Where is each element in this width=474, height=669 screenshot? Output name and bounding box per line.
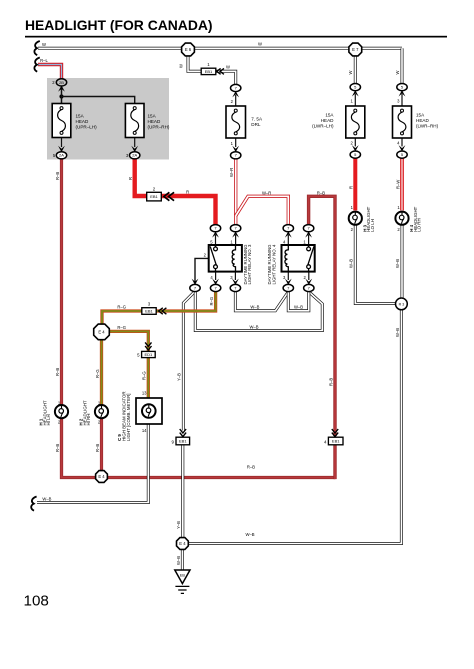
- svg-text:(LWR–RH): (LWR–RH): [416, 123, 439, 128]
- svg-text:DRL: DRL: [251, 122, 261, 127]
- connector 5 below LWR-LH fuse: [350, 151, 360, 158]
- connector 5 below LWR-RH fuse: [397, 151, 407, 158]
- svg-text:W–B: W–B: [395, 328, 400, 337]
- stub LWR-LH fuse bottom: [354, 138, 356, 146]
- svg-text:(LWR–LH): (LWR–LH): [312, 123, 334, 128]
- junction connector EB1 (top, W wire): [201, 62, 216, 74]
- svg-text:EB1: EB1: [150, 194, 158, 199]
- connector relay3 pin1 top: [230, 225, 240, 232]
- fuse 7.5A DRL: [226, 106, 263, 138]
- wire W-B from R3 splice down to E4 ground point: [189, 309, 402, 543]
- splice R3: [396, 298, 408, 310]
- svg-text:7. 5A: 7. 5A: [251, 117, 263, 122]
- svg-text:HEADLIGHT (FOR CANADA): HEADLIGHT (FOR CANADA): [25, 17, 213, 33]
- svg-text:W–B: W–B: [395, 259, 400, 268]
- svg-text:(UPR–RH): (UPR–RH): [148, 124, 170, 129]
- connector 2A below UPR-RH fuse: [130, 152, 140, 159]
- svg-text:W: W: [395, 71, 400, 75]
- connector relay3 pin4 bottom: [210, 284, 220, 291]
- wire link 2B connector into block: [61, 85, 63, 90]
- stub DRL fuse top: [235, 95, 237, 106]
- stub LWR-LH fuse top: [354, 94, 356, 106]
- svg-text:EB1: EB1: [332, 439, 340, 444]
- svg-text:108: 108: [24, 593, 49, 610]
- svg-text:HEAD: HEAD: [76, 119, 89, 124]
- svg-text:15A: 15A: [325, 113, 334, 118]
- junction connector EB1 (Y-B ground): [172, 437, 190, 445]
- stub relay3 pin4 bottom: [215, 272, 217, 280]
- svg-text:R–B: R–B: [317, 190, 325, 195]
- wire W-B relay3 pin2 branch to EB1 and E4 ground: [183, 291, 195, 537]
- svg-text:E 6: E 6: [185, 47, 192, 52]
- svg-text:HI LH: HI LH: [46, 414, 51, 425]
- stub LWR-RH fuse bottom: [401, 138, 403, 146]
- continuation curl R-L feed: [34, 58, 39, 72]
- bulb H3 HEADLIGHT LO LH: [349, 212, 362, 225]
- svg-text:W–R: W–R: [262, 190, 271, 195]
- connector chevron on R wire: [164, 192, 174, 200]
- wire W-B relay3 coil ground to relay4: [235, 291, 288, 311]
- svg-text:LIGHT [COMB. METER]: LIGHT [COMB. METER]: [126, 394, 131, 442]
- wire R-B from relay4 contact to junction EB1: [309, 196, 335, 436]
- svg-text:W–B: W–B: [245, 532, 254, 537]
- terminal arrow below connector 7 DRL: [232, 91, 239, 97]
- terminal arrow above connector 7 DRL: [232, 146, 239, 152]
- connector 7 above DRL fuse: [231, 84, 241, 91]
- terminal arrow below connector 5 LWR-LH: [352, 90, 359, 96]
- indicator C9 HIGH BEAM INDICATOR LIGHT box: [136, 398, 162, 424]
- connector relay4 pin3 bottom: [283, 284, 293, 291]
- bulb C9 high beam indicator: [142, 404, 156, 418]
- connector 2B on fuse block: [56, 79, 66, 86]
- svg-text:R–B: R–B: [328, 378, 333, 386]
- wire W from E6 via EB1 to 7.5A DRL fuse: [188, 51, 236, 85]
- junction connector EB1 (R wire): [147, 186, 162, 201]
- wire W main horizontal feed: [38, 47, 402, 50]
- terminal arrow above 2A UPR-RH: [131, 146, 138, 152]
- stub relay4 pin2 bottom: [308, 272, 310, 280]
- terminal arrow relay4 pin4: [285, 231, 292, 237]
- junction connector ED1 (R-G to meter): [137, 351, 155, 357]
- wire R-B from H2 down to E4: [100, 418, 103, 471]
- fuse 15A HEAD (UPR-RH): [125, 104, 170, 138]
- connector E4 lower-left: [96, 471, 108, 483]
- relay DAYTIME RUNNING LIGHT RELAY NO. 4: [282, 245, 315, 272]
- svg-text:R–G: R–G: [142, 371, 147, 380]
- svg-text:2A: 2A: [132, 153, 137, 158]
- terminal arrow relay4 pin1: [305, 231, 312, 237]
- wire R-G from relay3 output to E4: [102, 291, 216, 325]
- connector chevron above EB1 ground left: [180, 429, 186, 437]
- svg-text:R–G: R–G: [117, 305, 126, 310]
- svg-text:W: W: [179, 64, 184, 68]
- relay DAYTIME RUNNING LIGHT RELAY NO. 3: [209, 245, 242, 272]
- wire W-B from E4 to ground EB: [181, 550, 184, 571]
- wire R from LWR-LH fuse to H3: [353, 158, 357, 210]
- wire W-B from H4 to R3 splice: [401, 225, 404, 299]
- connector relay3 pin2 bottom: [190, 284, 200, 291]
- wire R-B from UPR-LH fuse to H1 headlight: [60, 158, 63, 405]
- stub relay3 pin3 bottom: [234, 272, 236, 280]
- stub LWR-RH fuse top: [401, 94, 403, 106]
- svg-text:E 4: E 4: [179, 541, 186, 546]
- svg-text:W: W: [226, 65, 230, 70]
- svg-text:R: R: [128, 177, 133, 180]
- svg-text:EB: EB: [180, 573, 186, 577]
- svg-text:R–G: R–G: [209, 297, 214, 306]
- svg-text:R–G: R–G: [117, 325, 126, 330]
- stub relay3 pin5 top: [215, 235, 217, 245]
- svg-text:R–B: R–B: [95, 444, 100, 452]
- svg-text:W–B: W–B: [176, 556, 181, 565]
- svg-text:R–W: R–W: [395, 180, 400, 189]
- svg-text:Y–B: Y–B: [176, 521, 181, 529]
- terminal arrow relay3 pin1: [232, 231, 239, 237]
- wire W-B from H3 to R3 splice: [355, 225, 396, 304]
- svg-text:E 7: E 7: [352, 47, 359, 52]
- stub DRL fuse bottom: [235, 138, 237, 147]
- wire R-G from E4 down to H2 headlight: [100, 338, 103, 405]
- terminal arrow relay3 pin2 bottom: [192, 279, 199, 285]
- terminal arrow above connector 5 LWR-RH: [399, 145, 406, 151]
- bulb H2 HEADLIGHT HI RH: [95, 405, 108, 418]
- terminal arrow below connector 5 LWR-RH: [399, 90, 406, 96]
- svg-text:EB1: EB1: [145, 309, 153, 314]
- svg-text:E 4: E 4: [98, 474, 105, 479]
- wire W-B long ground run relay3 to relay4: [195, 291, 322, 330]
- svg-text:EB1: EB1: [179, 439, 187, 444]
- svg-text:HI RH: HI RH: [86, 414, 91, 426]
- terminal arrow above 2A UPR-LH: [58, 146, 65, 152]
- svg-text:Y–B: Y–B: [177, 373, 182, 381]
- wire W-B relay4 pins ground link: [288, 291, 309, 311]
- svg-text:LIGHT RELAY NO. 4: LIGHT RELAY NO. 4: [272, 244, 277, 284]
- svg-text:15A: 15A: [148, 114, 157, 119]
- stub relay4 pin4 top: [287, 235, 289, 245]
- svg-text:R 3: R 3: [399, 303, 405, 307]
- stub relay4 pin3 bottom: [287, 272, 289, 280]
- connector E4 bottom: [177, 538, 189, 550]
- title underline: [25, 36, 447, 38]
- svg-text:LO LH: LO LH: [370, 219, 375, 232]
- fuse 15A HEAD (UPR-LH): [52, 104, 97, 138]
- fuse 15A HEAD (LWR-LH): [312, 106, 365, 138]
- wire R-B from H1 down to bottom rail across to EB1: [62, 418, 336, 478]
- wire fuse block internal link to UPR-LH fuse: [61, 89, 63, 104]
- terminal arrow relay4 pin3 bottom: [285, 279, 292, 285]
- wire fuse block internal link to UPR-RH fuse: [62, 97, 135, 104]
- junction connector EB1 (R-B ground): [324, 437, 343, 445]
- svg-text:HEAD: HEAD: [148, 119, 161, 124]
- svg-text:R–B: R–B: [55, 368, 60, 376]
- connector 7 below DRL fuse: [231, 152, 241, 159]
- connector relay4 pin1 top: [303, 225, 313, 232]
- connector E6: [182, 43, 195, 56]
- svg-text:2B: 2B: [59, 80, 64, 85]
- svg-text:15A: 15A: [76, 114, 85, 119]
- wire W drop from E7 to 15A HEAD LWR-LH fuse: [354, 50, 357, 84]
- connector E7: [349, 43, 362, 56]
- bulb H4 HEADLIGHT LO RH: [395, 212, 408, 225]
- wire R from UPR-RH fuse to relay3 contact: [135, 158, 216, 225]
- wire R-L feed to upper fuses: [38, 65, 62, 80]
- svg-text:R–B: R–B: [55, 444, 60, 452]
- svg-text:ED1: ED1: [145, 352, 154, 357]
- connector relay4 pin4 top: [283, 225, 293, 232]
- connector relay4 pin2 bottom: [304, 284, 314, 291]
- svg-text:W–B: W–B: [349, 259, 354, 268]
- continuation curl W-B bottom: [31, 497, 36, 511]
- svg-text:HEAD: HEAD: [321, 118, 334, 123]
- wire R-B from junction EB1 down to bottom rail: [333, 445, 336, 479]
- connector 5 above LWR-LH fuse: [350, 84, 360, 91]
- bulb H1 HEADLIGHT HI LH: [55, 405, 68, 418]
- svg-text:R–B: R–B: [55, 172, 60, 180]
- terminal arrow relay3 pin3 bottom: [232, 279, 239, 285]
- wire W-B from C9 combination meter to body harness: [37, 424, 148, 503]
- stub relay3 pin1 top: [235, 235, 237, 245]
- svg-text:LIGHT RELAY NO. 3: LIGHT RELAY NO. 3: [247, 244, 252, 284]
- svg-text:13: 13: [142, 391, 147, 396]
- wire R-W from LWR-RH fuse to H4: [400, 158, 404, 210]
- fuse 15A HEAD (LWR-RH): [393, 106, 439, 138]
- svg-text:W–R: W–R: [229, 168, 234, 177]
- wire W drop to 15A HEAD LWR-RH fuse: [401, 48, 404, 84]
- terminal arrow below 2B: [58, 85, 65, 91]
- connector chevron above EB1 ground right: [332, 429, 338, 437]
- wire relay3 pin2 to connector: [195, 258, 209, 282]
- connector relay3 pin3 bottom: [230, 284, 240, 291]
- connector relay3 pin5 top: [210, 225, 220, 232]
- svg-text:R–B: R–B: [247, 464, 255, 469]
- svg-text:R–G: R–G: [95, 369, 100, 378]
- svg-text:(UPR–LH): (UPR–LH): [76, 124, 98, 129]
- connector chevron on W wire: [217, 68, 224, 74]
- svg-text:EB1: EB1: [205, 69, 213, 74]
- svg-text:W: W: [258, 41, 262, 46]
- stub 2A UPR-RH fuse bottom: [134, 138, 136, 148]
- stub relay4 pin1 top: [308, 235, 310, 245]
- svg-text:HEAD: HEAD: [416, 118, 429, 123]
- terminal arrow relay4 pin2 bottom: [305, 279, 312, 285]
- wire R-G from E4 to high beam indicator via ED1: [108, 331, 148, 398]
- svg-text:R: R: [349, 186, 354, 189]
- connector 2A below UPR-LH fuse: [56, 152, 66, 159]
- junction dot on fuse block feed: [59, 94, 63, 98]
- continuation curl W feed: [34, 41, 39, 55]
- fuse/relay block shaded background: [47, 78, 169, 160]
- connector E4 upper: [94, 324, 110, 340]
- connector chevron above ED1: [145, 342, 151, 350]
- stub C9 box top to bulb: [147, 398, 149, 406]
- svg-text:E 4: E 4: [98, 329, 105, 334]
- svg-text:14: 14: [142, 428, 147, 433]
- terminal arrow relay3 pin5: [212, 231, 219, 237]
- svg-text:R: R: [186, 190, 189, 195]
- svg-text:W: W: [42, 42, 46, 47]
- terminal arrow relay3 pin4 bottom: [212, 279, 219, 285]
- svg-text:W–B: W–B: [250, 305, 259, 310]
- connector chevron on R-G wire: [159, 308, 167, 314]
- svg-text:2A: 2A: [59, 153, 64, 158]
- svg-text:W: W: [348, 71, 353, 75]
- wire W-R branch to relay4 coil: [236, 196, 289, 225]
- svg-text:R–L: R–L: [40, 58, 48, 63]
- svg-text:W–B: W–B: [42, 496, 51, 501]
- connector 5 above LWR-RH fuse: [397, 84, 407, 91]
- stub C9 bulb to box bottom: [148, 417, 150, 425]
- svg-text:LO RH: LO RH: [417, 218, 422, 231]
- junction connector EB1 (R-G wire): [142, 302, 156, 315]
- wire W-R from DRL fuse to relay3 coil: [234, 158, 237, 225]
- svg-text:15A: 15A: [416, 113, 425, 118]
- terminal arrow above connector 5 LWR-LH: [352, 145, 359, 151]
- svg-text:W–B: W–B: [249, 324, 258, 329]
- ground point EB: [175, 570, 190, 593]
- stub 2A UPR-LH fuse bottom: [61, 138, 63, 148]
- svg-text:W–B: W–B: [294, 305, 303, 310]
